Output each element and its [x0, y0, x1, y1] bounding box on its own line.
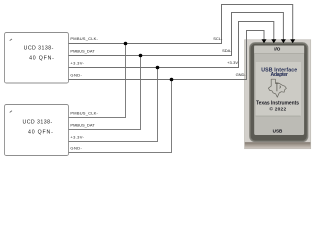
svg-text:SDA-: SDA-	[222, 48, 232, 53]
svg-text:40 QFN-: 40 QFN-	[28, 129, 53, 135]
svg-text:+3.3V-: +3.3V-	[70, 61, 84, 66]
junction dot GND	[170, 78, 174, 82]
photo surface shadow below device	[245, 142, 311, 148]
USB port label	[273, 129, 283, 134]
svg-text:SCL-: SCL-	[213, 36, 223, 41]
arrow into I/O pin3 (+3.3V)	[271, 39, 276, 43]
svg-text:40 QFN-: 40 QFN-	[29, 56, 54, 62]
arrow into I/O pin4 (GND)	[262, 39, 267, 43]
svg-text:USB: USB	[273, 129, 283, 134]
adapter label sticker	[256, 62, 301, 116]
sticker text "Texas Instruments"	[256, 100, 299, 112]
wire U2 GND branch	[69, 80, 172, 153]
svg-text:PMBUS_DAT: PMBUS_DAT	[70, 48, 95, 53]
svg-text:GND-: GND-	[70, 146, 82, 151]
IC U1 UCD3138	[5, 33, 69, 84]
U1 body	[5, 33, 69, 84]
svg-text:GND-: GND-	[70, 72, 82, 77]
I/O connector seam	[254, 53, 304, 55]
svg-text:UCD 3138-: UCD 3138-	[24, 45, 54, 51]
svg-text:Texas Instruments: Texas Instruments	[256, 100, 299, 106]
adapter face	[254, 46, 304, 135]
junction dot SDA	[139, 54, 143, 58]
svg-text:I/O: I/O	[274, 46, 281, 51]
wire GND net	[69, 31, 265, 80]
U2 body	[5, 105, 69, 156]
wire U2 PMBUS_CLK branch	[69, 44, 126, 118]
wire PMBUS_CLK / SCL net	[69, 5, 293, 44]
wire U2 +3.3V branch	[69, 68, 158, 142]
U2 corner tick	[10, 111, 12, 113]
svg-text:Adapter: Adapter	[270, 72, 288, 78]
svg-text:GND-: GND-	[236, 72, 247, 77]
arrow into I/O pin1 (SCL)	[290, 39, 295, 43]
I/O top band	[254, 46, 304, 54]
svg-text:PMBUS_DAT: PMBUS_DAT	[70, 123, 95, 128]
IC U2 UCD3138	[5, 105, 69, 156]
sticker text line "USB Interface"	[261, 67, 297, 78]
svg-text:PMBUS_CLK-: PMBUS_CLK-	[70, 111, 98, 116]
adapter body frame	[250, 43, 309, 142]
svg-text:+3.3V-: +3.3V-	[70, 135, 84, 140]
U1 corner tick	[10, 39, 12, 41]
wire PMBUS_DAT / SDA net	[69, 13, 284, 56]
svg-text:UCD 3138-: UCD 3138-	[23, 120, 53, 126]
wire U2 PMBUS_DAT branch	[69, 56, 141, 130]
USB interface adapter photo background	[245, 40, 311, 149]
wire +3.3V net	[69, 22, 274, 68]
svg-text:+3.3V: +3.3V	[227, 60, 238, 65]
arrow into I/O pin2 (SDA)	[281, 39, 286, 43]
TI Texas logo	[268, 79, 286, 97]
junction dot +3.3V	[156, 66, 160, 70]
svg-text:PMBUS_CLK-: PMBUS_CLK-	[70, 36, 98, 41]
junction dot SCL	[124, 42, 128, 46]
I/O port label	[274, 46, 281, 51]
